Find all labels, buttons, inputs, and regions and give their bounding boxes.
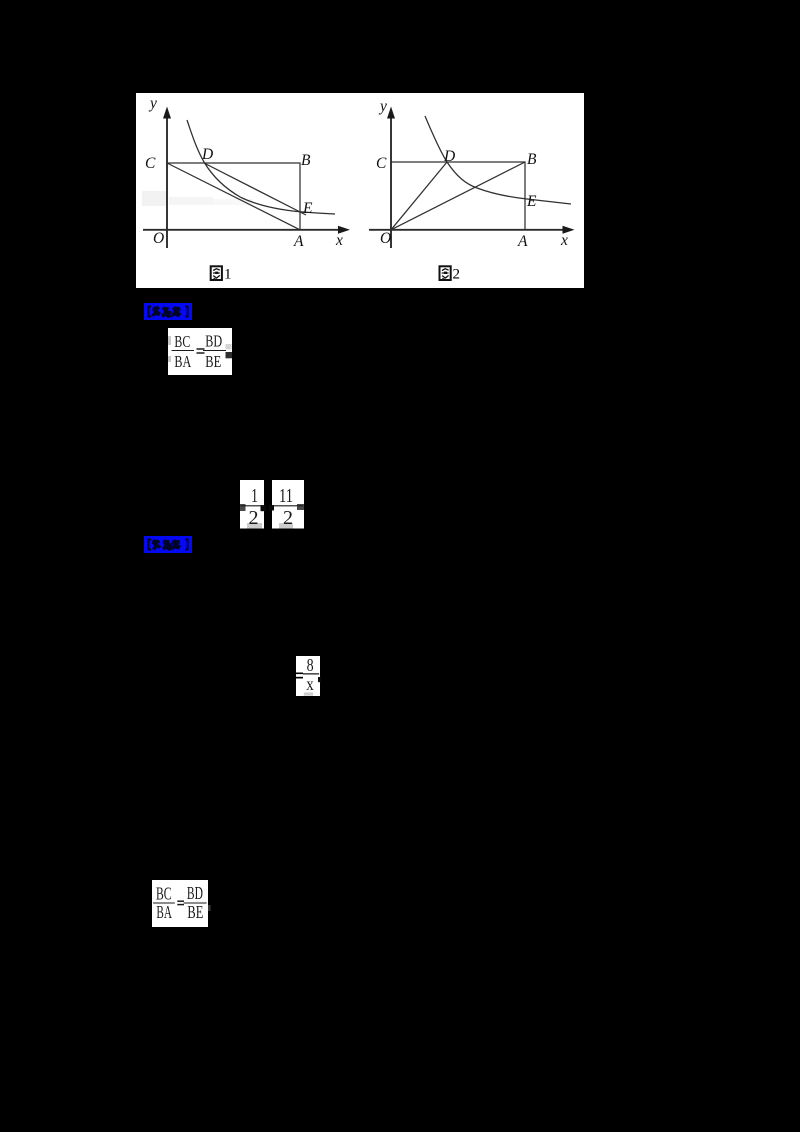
svg-text:2: 2 xyxy=(283,507,293,529)
svg-text:B: B xyxy=(301,152,311,169)
svg-text:C: C xyxy=(376,155,387,172)
svg-text:y: y xyxy=(378,98,387,115)
svg-text:BC: BC xyxy=(156,884,172,904)
svg-text:1: 1 xyxy=(251,485,258,507)
svg-text:8: 8 xyxy=(307,656,314,675)
svg-text:BC: BC xyxy=(174,332,190,351)
svg-text:2: 2 xyxy=(453,267,461,283)
svg-text:B: B xyxy=(527,151,537,168)
svg-text:BE: BE xyxy=(205,352,221,371)
svg-text:BA: BA xyxy=(174,352,191,371)
svg-text:2: 2 xyxy=(249,507,259,529)
svg-text:11: 11 xyxy=(279,485,293,507)
svg-text:D: D xyxy=(201,146,213,163)
svg-text:BA: BA xyxy=(156,902,172,922)
svg-text:1: 1 xyxy=(224,267,232,283)
svg-text:D: D xyxy=(443,148,455,165)
svg-text:C: C xyxy=(145,155,156,172)
svg-text:E: E xyxy=(302,200,313,217)
svg-text:O: O xyxy=(153,230,164,247)
svg-text:x: x xyxy=(335,232,343,249)
svg-text:BD: BD xyxy=(205,332,222,351)
svg-text:A: A xyxy=(517,233,528,250)
svg-text:O: O xyxy=(380,230,391,247)
svg-text:y: y xyxy=(148,95,157,112)
svg-text:A: A xyxy=(293,233,304,250)
svg-text:E: E xyxy=(526,193,537,210)
svg-text:x: x xyxy=(560,232,568,249)
svg-text:BD: BD xyxy=(187,883,203,903)
svg-text:x: x xyxy=(306,674,314,694)
svg-text:BE: BE xyxy=(187,902,203,922)
